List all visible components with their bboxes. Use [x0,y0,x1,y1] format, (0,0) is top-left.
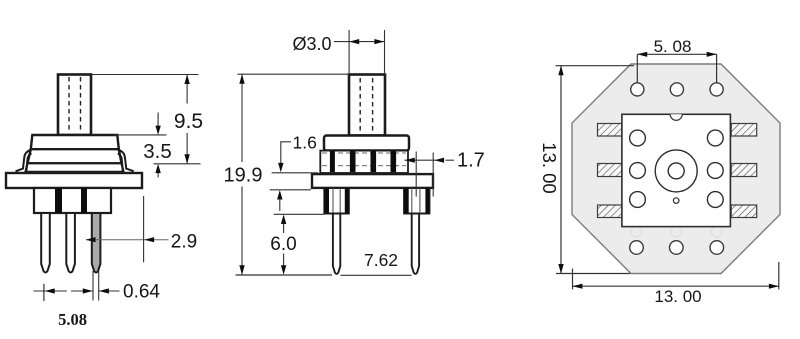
dim 13.00 bottom label [654,287,701,306]
top notch semicircle [670,114,682,120]
dim 19.9 label [224,165,263,187]
hatch pad left row 2 [598,164,622,177]
square hole right 2 [707,163,723,179]
square hole right 3 [707,192,723,208]
shaft (side view) [58,75,91,136]
svg-text:13. 00: 13. 00 [654,287,701,306]
svg-text:0.64: 0.64 [123,282,160,303]
octagon body [572,64,780,274]
dim Ø3.0 arrows [349,39,384,44]
dim 13.00 left extension top [556,65,635,67]
shaft dashed hidden lines (front) [360,78,372,133]
svg-text:6.0: 6.0 [270,234,296,255]
terminal row dashed lines [322,153,406,166]
dim 3.5 upper arrow [155,113,160,135]
svg-text:1.7: 1.7 [457,150,485,172]
dim 13.00 left label (rotated) [539,142,560,193]
dim 3.5 extension line (cap top) [114,134,167,136]
svg-text:7.62: 7.62 [364,250,398,270]
hole top row 3 [710,83,723,96]
dim 9.5 extension line top [92,74,199,76]
center boss outer circle [655,150,697,192]
svg-text:3.5: 3.5 [143,140,172,163]
svg-text:1.6: 1.6 [293,133,317,153]
front pin right [412,214,419,274]
dim 2.9 label [171,232,197,253]
hole top row 2 [670,83,683,96]
dim Ø3.0 line [334,41,385,43]
shaft (front view) [349,75,385,136]
svg-text:5. 08: 5. 08 [654,37,692,56]
dim 6.0 down arrow [281,254,286,275]
pin 2 (left view) [66,213,75,273]
hatch pad left row 1 [598,124,622,137]
dim Ø3.0 extension lines [349,30,384,73]
base plate (side view) [6,173,142,188]
dim 6.0 up arrow [281,215,286,234]
base plate (front view) [312,174,433,188]
dim 1.7 line [405,159,455,161]
hole top row 1 [631,83,644,96]
dim 3.5 extension line (body bottom) [154,163,201,165]
dim 19.9 arrows [239,74,244,275]
dim 13.00 bottom arrows [573,284,779,289]
dim 5.08 label (left view) [58,310,87,329]
front pin left [333,214,340,274]
support stubs under base [34,188,111,213]
dim 9.5 line [186,75,188,164]
dim 2.9 line [86,239,169,241]
dim Ø3.0 label [293,34,332,54]
dim 0.64 extension lines at pin3 [93,271,99,301]
hole bottom row 3 [710,241,724,255]
dim 3.5 lower arrow [155,164,160,178]
dim 5.08 extension lines [637,54,716,82]
cap lower trapezoid [28,149,122,163]
dim 1.6 label [293,133,317,153]
svg-text:2.9: 2.9 [171,232,197,253]
dim 9.5 arrows [184,75,189,164]
svg-text:9.5: 9.5 [174,110,203,133]
right clip [118,150,134,172]
dim 7.62 line [341,274,412,276]
central square [622,114,731,226]
dim 6.0 extension line (leg bottom) [274,213,324,215]
body collar [26,163,124,172]
dim 2.9 extension tick [143,196,145,262]
hatch pad right row 3 [731,205,757,218]
dim 0.64 left line [33,290,119,292]
svg-text:5.08: 5.08 [58,310,87,329]
dim 5.08 arrows [637,52,716,57]
square hole left 1 [630,130,646,146]
ghost circles [631,226,722,237]
square hole left 3 [630,192,646,208]
dim 0.64 arrows [45,288,109,293]
square hole right 1 [707,130,723,146]
dim 19.9 line [241,74,243,275]
dim 7.62 label [364,250,398,270]
square hole left 2 [630,163,646,179]
dim 3.5 label [143,140,172,163]
hatch pad left row 3 [598,205,622,218]
dim 1.6 extension line lower [270,189,311,191]
dim 1.7 label [457,150,485,172]
dim 13.00 left line [560,66,562,274]
dim 6.0 label [270,234,296,255]
dim 1.7 extension lines [416,152,433,197]
center boss inner circle [668,163,684,179]
small index hole [673,198,679,204]
svg-text:19.9: 19.9 [224,165,263,187]
dim 13.00 bottom extension right [778,262,780,289]
right leg [404,188,429,214]
left leg inner pin lines [333,188,340,214]
cap upper trapezoid [31,135,119,149]
dim 5.08 line [637,53,716,55]
hole bottom row 2 [670,241,684,255]
terminal posts [330,151,396,173]
dim 9.5 label [174,110,203,133]
svg-text:Ø3.0: Ø3.0 [293,34,332,54]
dim 13.00 bottom extension left [572,269,574,290]
cap (front view) [324,136,409,151]
right leg inner pin lines [412,188,420,214]
dim 1.6 down arrow [278,163,283,173]
hatch pad right row 2 [731,164,757,177]
terminal row body [320,151,408,173]
dim 13.00 bottom line [573,285,779,287]
dim 13.00 left extension bottom [556,273,630,275]
svg-text:13. 00: 13. 00 [539,142,560,193]
pin 3 (left view, sectioned grey) [92,213,101,273]
dim 5.08 label (right view) [654,37,692,56]
dim 19.9 top extension [238,73,350,75]
hatch pad right row 1 [731,124,757,137]
dim 1.6 extension line upper [272,172,318,174]
dim 1.7 arrows [405,158,444,163]
dim 0.64 tick at pin1 [43,284,45,301]
pin 1 (left view) [41,213,50,273]
dim 2.9 arrows [86,237,155,242]
dim 0.64 label [123,282,160,303]
shaft hidden dashed lines [69,77,81,133]
dim 1.6 up arrow [277,190,282,211]
dim 1.6 bracket [281,142,291,167]
left clip [16,150,32,172]
bottom reference line [236,274,333,276]
hole bottom row 1 [630,241,644,255]
left leg [324,188,348,214]
dim 13.00 left arrows [558,66,563,274]
